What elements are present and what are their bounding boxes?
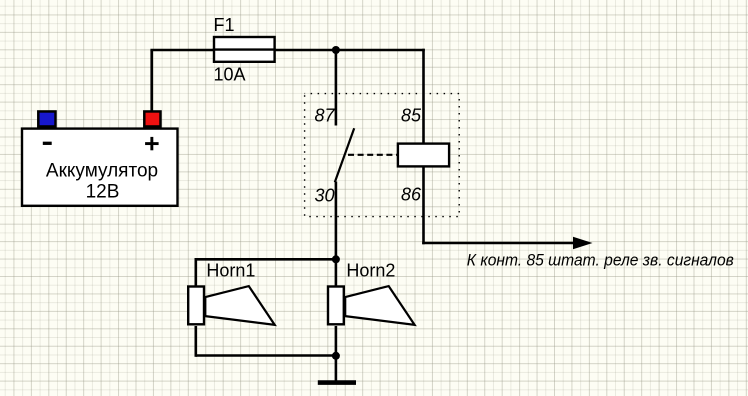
wire battery plus up — [150, 50, 153, 111]
relay coil — [398, 144, 449, 167]
wire through fuse — [213, 48, 276, 50]
svg-text:F1: F1 — [214, 15, 235, 35]
wire top left to fuse — [150, 49, 214, 52]
wire horn1 left vertical bottom — [195, 326, 198, 357]
svg-text:10A: 10A — [214, 64, 246, 84]
battery minus sign — [43, 142, 52, 145]
svg-text:Horn2: Horn2 — [346, 261, 395, 281]
wire horn bottom horizontal — [196, 354, 336, 357]
relay dotted boundary — [305, 94, 460, 217]
horn2 bell — [345, 286, 414, 325]
svg-text:86: 86 — [401, 184, 422, 204]
wire horn2 bottom to ground junction — [335, 326, 338, 357]
wire coil to corner below — [422, 166, 425, 244]
battery plus terminal — [144, 111, 160, 126]
wire ground stub — [335, 356, 338, 382]
ground bar — [318, 380, 356, 385]
svg-text:87: 87 — [315, 105, 336, 125]
battery plus sign — [145, 137, 159, 150]
svg-text:12В: 12В — [86, 182, 120, 203]
svg-text:Horn1: Horn1 — [206, 260, 255, 280]
svg-text:К конт. 85 штат. реле зв. сигн: К конт. 85 штат. реле зв. сигналов — [467, 252, 734, 270]
svg-text:30: 30 — [315, 186, 335, 206]
horn1 body — [188, 287, 204, 325]
wire right vertical to coil — [422, 49, 425, 144]
wire horn1 left vertical top — [195, 258, 198, 286]
wire horn top horizontal — [196, 258, 336, 261]
fuse F1 body — [214, 37, 275, 62]
relay switch blade — [335, 128, 354, 182]
junction dot horn top — [332, 255, 340, 263]
horn1 bell — [205, 286, 274, 325]
relay actuator dashed link — [348, 154, 397, 156]
junction dot ground — [332, 352, 340, 360]
arrowhead to external relay — [573, 237, 593, 249]
wire center vertical pin87 — [335, 50, 338, 126]
battery body — [22, 129, 178, 206]
wire pin30 down to horn junction — [335, 182, 338, 287]
wire fuse to corner — [275, 49, 425, 52]
junction dot top — [332, 46, 340, 54]
wire arrow horizontal — [422, 242, 575, 245]
horn2 body — [328, 287, 344, 325]
svg-text:Аккумулятор: Аккумулятор — [46, 161, 158, 182]
svg-text:85: 85 — [401, 105, 422, 125]
battery minus terminal — [38, 111, 55, 126]
